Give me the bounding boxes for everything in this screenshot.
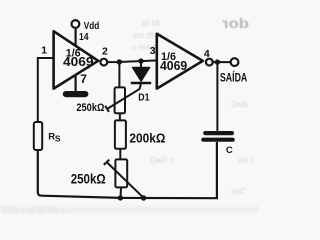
svg-text:Oiub: Oiub — [231, 100, 248, 109]
svg-text:GeO n: GeO n — [150, 156, 174, 165]
svg-text:eH t: eH t — [238, 156, 253, 165]
svg-text:Con s ab dl erb a: Con s ab dl erb a — [4, 206, 65, 215]
svg-text:SAÍDA: SAÍDA — [220, 72, 247, 85]
svg-text:4: 4 — [204, 48, 210, 60]
svg-text:2: 2 — [102, 46, 108, 58]
svg-text:dor: dor — [221, 15, 249, 31]
svg-text:7: 7 — [80, 72, 87, 86]
svg-text:D1: D1 — [138, 92, 149, 104]
svg-text:3: 3 — [150, 45, 156, 57]
svg-text:S: S — [55, 134, 61, 144]
svg-text:4069: 4069 — [63, 54, 94, 69]
svg-text:soC: soC — [231, 187, 245, 196]
svg-text:250kΩ: 250kΩ — [76, 102, 104, 114]
svg-text:C: C — [226, 145, 233, 156]
svg-text:250kΩ: 250kΩ — [71, 171, 106, 186]
svg-text:iM tis: iM tis — [141, 19, 160, 28]
svg-text:200kΩ: 200kΩ — [129, 130, 165, 145]
svg-text:4069: 4069 — [160, 59, 187, 73]
svg-text:14: 14 — [79, 31, 89, 43]
svg-text:1: 1 — [41, 45, 47, 57]
